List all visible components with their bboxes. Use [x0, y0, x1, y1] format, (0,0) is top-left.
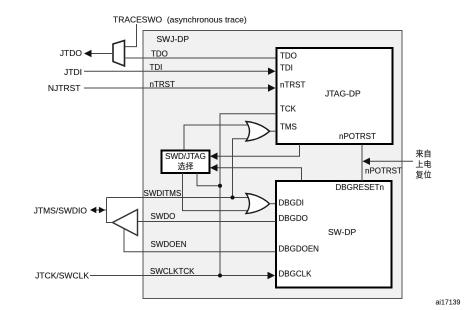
svg-text:TRACESWO (asynchronous trace): TRACESWO (asynchronous trace)	[113, 15, 247, 25]
svg-text:TDO: TDO	[151, 50, 168, 59]
or-gate OR2	[246, 194, 270, 214]
svg-text:复位: 复位	[416, 170, 432, 180]
svg-text:DBGRESETn: DBGRESETn	[336, 183, 384, 192]
svg-text:JTAG-DP: JTAG-DP	[325, 89, 361, 99]
svg-text:JTMS/SWDIO: JTMS/SWDIO	[34, 206, 88, 216]
svg-text:SWCLKTCK: SWCLKTCK	[150, 267, 195, 276]
svg-text:DBGCLK: DBGCLK	[279, 270, 313, 279]
svg-text:SWDITMS: SWDITMS	[144, 189, 182, 198]
svg-text:DBGDI: DBGDI	[279, 198, 304, 207]
svg-text:SWJ-DP: SWJ-DP	[157, 34, 190, 44]
svg-text:SWD/JTAG: SWD/JTAG	[165, 152, 206, 161]
arrow nTRST	[268, 84, 276, 91]
svg-text:上电: 上电	[416, 159, 432, 169]
svg-text:TDI: TDI	[150, 63, 163, 72]
svg-text:JTDI: JTDI	[64, 67, 82, 77]
arrow bidirectional right	[99, 207, 105, 214]
svg-text:JTCK/SWCLK: JTCK/SWCLK	[35, 271, 89, 281]
arrow select line2	[210, 164, 218, 171]
wire TDI	[84, 70, 270, 72]
svg-text:SW-DP: SW-DP	[328, 227, 357, 237]
wire select pinA to OR2	[183, 173, 253, 211]
svg-text:TCK: TCK	[280, 105, 297, 114]
svg-text:ai17139: ai17139	[436, 300, 461, 307]
wire nPOTRST horizontal	[369, 160, 414, 162]
wire SWDOEN	[124, 229, 276, 252]
buffer pad driver	[113, 210, 138, 236]
SW-DP block	[276, 181, 392, 288]
wire OR1 upper input from select top	[184, 125, 252, 151]
wire pad vertical	[107, 198, 114, 223]
outer box SWJ-DP	[143, 31, 402, 299]
svg-text:DBGDO: DBGDO	[279, 214, 308, 223]
wire TDO	[125, 57, 277, 59]
wire select pinB to SWCLKTCK riser	[197, 173, 220, 186]
wire nTRST	[84, 87, 270, 89]
wire TRACESWO drop	[125, 24, 137, 47]
SWD/JTAG select box	[162, 151, 210, 174]
wire JTMS/SWDIO pad line	[92, 209, 107, 211]
wire OR1 lower input riser	[233, 139, 253, 198]
wire select line2 to SW-DP	[217, 168, 302, 181]
arrow DBGCLK	[268, 272, 276, 279]
svg-text:nTRST: nTRST	[150, 80, 175, 89]
node junction SWCLKTCK riser	[218, 274, 222, 278]
wire nPOTRST vertical	[361, 145, 363, 182]
arrow select line1	[210, 153, 218, 160]
svg-text:选择: 选择	[178, 161, 194, 171]
svg-text:DBGDOEN: DBGDOEN	[279, 244, 320, 253]
svg-text:TDO: TDO	[280, 52, 297, 61]
svg-text:nTRST: nTRST	[280, 81, 305, 90]
node junction SWDITMS riser	[231, 196, 235, 200]
arrow TDI	[268, 68, 276, 75]
wire mux output	[90, 53, 113, 55]
svg-text:TMS: TMS	[280, 122, 297, 131]
svg-text:JTDO: JTDO	[60, 48, 83, 58]
svg-text:TDI: TDI	[280, 63, 293, 72]
svg-text:nPOTRST: nPOTRST	[339, 132, 376, 141]
mux	[113, 41, 125, 67]
wire SWDO	[138, 221, 276, 223]
svg-text:nPOTRST: nPOTRST	[365, 167, 402, 176]
wire DBGDI from OR2	[269, 203, 276, 205]
svg-text:SWDOEN: SWDOEN	[151, 240, 187, 249]
wire select line1 to JTAG-DP	[217, 145, 300, 157]
wire TMS from OR1	[269, 130, 276, 132]
wire TCK	[220, 114, 276, 276]
wire SWCLKTCK	[90, 275, 269, 277]
svg-text:SWDO: SWDO	[151, 212, 176, 221]
arrow nPOTRST	[363, 158, 371, 165]
wire SWDITMS	[107, 197, 253, 199]
svg-text:来自: 来自	[416, 149, 432, 159]
svg-text:NJTRST: NJTRST	[48, 83, 81, 93]
or-gate OR1	[246, 122, 270, 142]
arrow JTDO	[84, 50, 92, 57]
arrow bidirectional left	[90, 207, 96, 214]
node junction pinB	[218, 184, 222, 188]
JTAG-DP block	[277, 48, 393, 144]
